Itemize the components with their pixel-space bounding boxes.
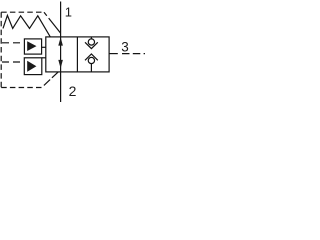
check valve CV1 ball <box>88 39 94 45</box>
pilot ratio triangle in B2 <box>27 61 36 72</box>
dashed pilot line to B2 <box>2 61 24 63</box>
dashed pilot line to B1 <box>2 42 24 44</box>
check valve CV2 stem <box>90 64 92 72</box>
dashed boundary left <box>0 12 2 87</box>
arrowhead up (flow 2-to-1) <box>58 37 63 45</box>
wire: stub B2 top edge to envelope <box>42 57 46 59</box>
svg-text:1: 1 <box>65 4 72 19</box>
wire: port 2 line <box>60 72 62 102</box>
pilot piston box B2 <box>24 58 42 75</box>
arrowhead down (flow 1-to-2) <box>58 60 63 69</box>
pilot ratio triangle in B1 <box>27 41 36 51</box>
valve envelope (main cartridge body, two cells) <box>46 37 109 72</box>
wire: port 3 dashed pilot line <box>122 53 145 55</box>
wire: flow path through left cell <box>60 37 62 72</box>
wire: port 3 stub <box>109 53 118 55</box>
dashed boundary diagonal to port 1 <box>44 12 61 33</box>
check valve CV2 seat <box>85 54 98 60</box>
svg-text:2: 2 <box>69 83 77 99</box>
spring <box>3 15 50 37</box>
pilot piston box B1 <box>24 39 41 54</box>
wire: port 1 line <box>60 2 62 37</box>
dashed boundary diagonal to port 2 <box>44 72 59 86</box>
check valve CV1 seat <box>85 42 98 48</box>
svg-text:3: 3 <box>121 39 129 54</box>
check valve CV1 stem <box>90 37 92 40</box>
envelope divider (cell boundary) <box>76 37 78 72</box>
check valve CV2 ball <box>88 57 94 63</box>
wire: stub B1 to envelope <box>42 46 46 48</box>
dashed boundary top <box>1 11 44 13</box>
dashed boundary bottom <box>1 87 41 89</box>
